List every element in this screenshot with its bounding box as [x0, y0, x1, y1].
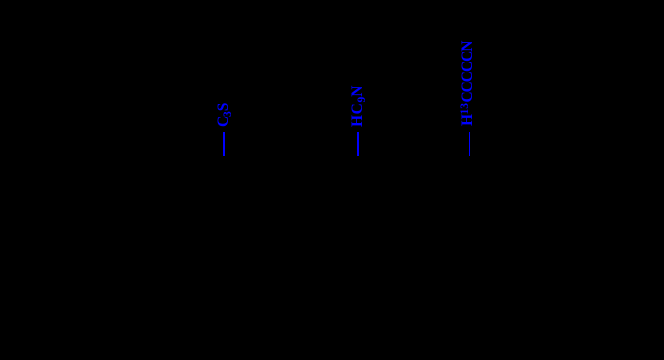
spectral-line label C3S (rotated) — [216, 104, 231, 127]
spectral-line tick marker for C3S — [223, 132, 225, 156]
spectral-line label H13CCCCCN (rotated) — [460, 42, 475, 126]
spectral-line tick marker for H13CCCCCN — [469, 132, 470, 156]
spectral-line label HC9N (rotated) — [350, 85, 365, 127]
spectral-line tick marker for HC9N — [357, 132, 359, 156]
